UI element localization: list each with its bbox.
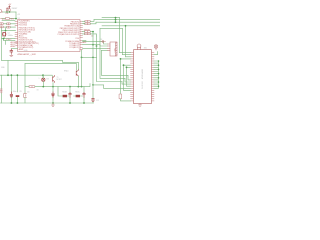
cap C10 [83,92,85,97]
rxd filter resistor RN4A [85,21,90,23]
junction usb d+ [92,44,94,46]
resistor RN1C bar [76,95,80,98]
wire xtal row3 [3,26,15,28]
filter Z1 [85,31,91,33]
junction rbus0 [158,60,160,62]
junction bot2 [17,102,19,104]
svg-text:16U2-MU: 16U2-MU [142,81,144,89]
transistor T2 [76,69,78,76]
junction ic2a [120,58,122,60]
junction bot3 [52,102,54,104]
resistor R1 [1,18,10,20]
cap C5 [52,92,54,98]
svg-text:1K: 1K [37,90,40,92]
crystal Q2 [137,44,141,50]
cap C11 [92,99,94,102]
IC2 right top wire [154,52,158,55]
svg-text:C11: C11 [96,100,99,102]
R7 wire [121,99,131,101]
IC right pin labels [58,21,80,49]
resistor R2 [7,23,10,25]
left edge resistor R6 [16,95,20,97]
junction g2 [92,57,94,59]
junction bus4 [125,25,127,27]
svg-text:ATMEGA8U2: ATMEGA8U2 [141,69,144,79]
IC left pins stubs [15,21,18,42]
svg-text:D4: D4 [27,91,29,93]
junction bot4 [69,102,71,104]
junction reset-resistor [9,11,11,13]
svg-text:RN1C: RN1C [75,91,80,93]
wire reset vertical [2,12,16,19]
svg-text:RESET: RESET [12,8,18,10]
svg-text:PC1(ADC1): PC1(ADC1) [70,46,80,49]
junction rail d [42,74,44,76]
IC2 right pin wires [154,61,159,88]
wire usb gnd row [82,56,97,58]
junction rail b [11,74,13,76]
IC right pins stubs [80,21,83,49]
svg-text:RN1B: RN1B [62,91,67,93]
junction bus2 [115,19,117,21]
junction bus3 [115,21,117,23]
svg-text:100n: 100n [13,91,17,93]
junction reset pin [15,18,17,20]
svg-text:RX: RX [47,78,50,80]
stub wires resistors [58,87,83,96]
junction rbus2 [158,69,160,71]
junction r4b [52,86,54,88]
wires resonator [2,31,16,41]
diode D4 [24,93,27,97]
pin stubs mid-left [16,42,18,46]
edge pad P3 [0,26,3,28]
svg-text:BC817: BC817 [57,79,62,81]
junction usb [92,31,94,33]
junction u3 [92,84,94,86]
svg-text:C8: C8 [100,39,102,41]
ground sym IC2 [138,104,141,107]
long rail y75 [0,61,53,92]
junction r4e [81,86,83,88]
svg-text:3B1: 3B1 [144,48,147,50]
cap C9 [69,92,71,97]
junction rbus4 [158,77,160,79]
USB connector X2 [108,42,118,56]
ground sym under C6 [10,54,13,57]
left edge connector P1 [0,89,2,93]
crystal Q3 right [154,45,157,50]
svg-text:R5: R5 [20,91,22,93]
junction ic2c [126,66,128,68]
resistor R3 [7,26,10,28]
svg-text:PD0: PD0 [76,38,80,40]
junction ic2b [123,64,125,66]
reset switch S1 [0,10,3,13]
junction bot1 [11,102,13,104]
diode D1 [6,8,8,12]
junction xtal [5,30,7,32]
net labels left of pins [11,41,17,48]
usb data U-turn wires [82,29,131,103]
junction rbus6 [158,85,160,87]
crystal area: wire xtal1 [2,19,15,21]
svg-text:AREF: AREF [11,45,17,48]
junction r4c [69,86,71,88]
IC2 left pins [131,53,134,101]
IC right wires to usb area [83,32,108,51]
junction rail e [7,74,9,76]
IC2 right pins [152,53,155,101]
resonator Q1 [2,32,5,36]
edge pad P2 [0,23,3,25]
T2 wiring [63,61,79,71]
junction rail c [17,74,19,76]
svg-text:+5V: +5V [17,14,21,16]
resistor R7 [119,94,121,99]
bottom rail y103 [0,93,94,103]
svg-text:L: L [39,78,40,80]
ground sym bottom [52,103,55,106]
LED L1 [42,78,45,81]
+5V supply symbol [7,6,10,8]
junction rbus5 [158,81,160,83]
cap C6 under IC [10,49,13,54]
svg-text:XTAL2: XTAL2 [6,38,11,41]
svg-text:XT1: XT1 [2,19,5,21]
filter Z2 [85,33,91,35]
svg-text:PD1(TXD): PD1(TXD) [19,25,28,27]
IC left pin labels [19,21,39,51]
gnd wire below ic [2,39,77,64]
rail y86.6 [25,64,90,94]
tall connector IC2 [134,50,152,104]
main IC box ATMEGA328P [18,20,81,52]
junction bus1 [115,17,117,19]
svg-text:ATMEGA328P_-_MUR: ATMEGA328P_-_MUR [18,53,37,56]
svg-text:RN1D: RN1D [64,71,69,73]
wire aref [11,48,17,50]
wire reset row [2,11,16,13]
junction usb d- [96,45,98,47]
junction g1 [81,57,83,59]
junction rbus3 [158,73,160,75]
svg-text:GND: GND [1,67,6,69]
junction reset-diode [6,11,8,13]
wire xtal row2 [3,23,15,25]
resistor RN1B bar [63,95,67,98]
wire rxd [83,20,97,24]
svg-text:16MHz: 16MHz [8,35,14,37]
resistor R4 [29,86,35,88]
junction r4d [78,86,80,88]
svg-text:PC5(ADC5/SCL/PCINT13): PC5(ADC5/SCL/PCINT13) [58,33,80,36]
junction rbus1 [158,64,160,66]
txd filter resistor RN4B [85,23,90,25]
junction bot5 [83,102,85,104]
transistor T1 [53,75,55,82]
svg-text:10K: 10K [5,13,9,15]
top right bus wires [94,18,160,57]
svg-text:+5V: +5V [8,4,12,6]
wires xtal verticals [2,28,16,31]
LED legs [42,75,44,86]
junction resonator [3,38,5,40]
cap C8 [101,40,106,42]
resistor RP1 10K [9,8,10,12]
junction r4a [42,86,44,88]
IC2 left wires [120,53,131,94]
cap C4 [10,92,12,97]
vertical drops to caps [53,76,84,92]
